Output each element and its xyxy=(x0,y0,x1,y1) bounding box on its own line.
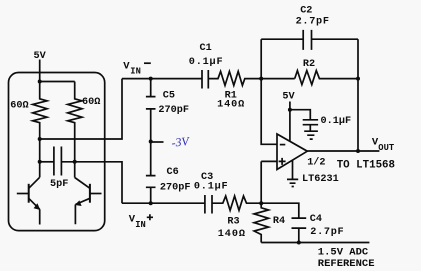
value 0.1uF C3 xyxy=(194,182,229,193)
svg-text:1/2: 1/2 xyxy=(307,156,325,168)
IC internal boundary box xyxy=(9,73,105,231)
designator C1 xyxy=(200,43,212,54)
node 5V left supply label xyxy=(34,51,47,62)
node junction left collector xyxy=(38,137,42,141)
op-amp U1 triangle xyxy=(277,134,307,170)
svg-text:270pF: 270pF xyxy=(160,183,191,194)
value 270pF C6 xyxy=(160,183,191,194)
wire opamp V- lead xyxy=(292,161,294,180)
svg-text:-3V: -3V xyxy=(171,134,191,150)
net label -3V annotation xyxy=(171,134,191,150)
designator R2 xyxy=(303,59,315,70)
wire VIN+ line xyxy=(122,202,205,204)
wire bypass branch xyxy=(290,110,310,120)
resistor 60ohm left xyxy=(33,82,47,178)
resistor R1 xyxy=(208,71,294,85)
svg-text:60Ω: 60Ω xyxy=(10,100,28,111)
value label 60ohm left xyxy=(10,100,28,111)
label 1.5V ADC xyxy=(318,246,369,258)
wire reference line xyxy=(261,242,369,244)
transistor Q1 collector xyxy=(29,177,40,188)
wire collector left to VIN- xyxy=(40,79,122,139)
designator C6 xyxy=(167,167,179,178)
svg-text:5V: 5V xyxy=(282,92,295,103)
svg-text:R3: R3 xyxy=(227,217,239,228)
node junction plus input xyxy=(259,201,263,205)
svg-text:C5: C5 xyxy=(163,90,175,101)
node junction 5V/rail xyxy=(38,80,42,84)
svg-text:0.1µF: 0.1µF xyxy=(194,182,229,193)
transistor Q2 emitter arrow xyxy=(75,200,82,206)
wire left collector to 5pF xyxy=(40,161,54,163)
transistor Q2 base lead xyxy=(90,193,102,195)
svg-text:V: V xyxy=(123,61,130,73)
value 0.1uF C1 xyxy=(189,57,224,68)
svg-text:IN: IN xyxy=(130,67,141,77)
value 140ohm R3 xyxy=(218,229,246,240)
svg-text:LT6231: LT6231 xyxy=(302,174,339,185)
transistor Q2 collector xyxy=(75,178,90,189)
wire plus input vertical xyxy=(261,161,277,203)
wire C4 branch xyxy=(261,203,299,218)
svg-text:1.5V ADC: 1.5V ADC xyxy=(318,246,369,258)
transistor Q2 emitter xyxy=(75,198,90,224)
value 140ohm R1 xyxy=(217,100,245,111)
node VOUT label xyxy=(372,136,395,152)
designator R3 xyxy=(227,217,239,228)
wire resistor top rail xyxy=(40,81,75,83)
value 2.7pF C4 xyxy=(310,227,344,238)
capacitor 5pF plates xyxy=(54,147,62,176)
svg-text:140Ω: 140Ω xyxy=(217,100,245,111)
capacitor C4 xyxy=(292,218,307,242)
svg-text:0.1µF: 0.1µF xyxy=(321,116,352,127)
node junction right collector xyxy=(73,160,77,164)
node junction feedback/output xyxy=(356,149,360,153)
resistor R2 xyxy=(295,71,358,85)
svg-text:2.7pF: 2.7pF xyxy=(296,17,330,28)
value label 5pF xyxy=(50,179,68,190)
wire feedback left vertical xyxy=(261,39,277,144)
svg-text:5pF: 5pF xyxy=(50,179,68,190)
value label 60ohm right xyxy=(82,97,100,108)
transistor Q2 base bar xyxy=(89,184,91,203)
wire 5V lead xyxy=(39,60,41,82)
svg-text:2.7pF: 2.7pF xyxy=(310,227,344,238)
svg-text:REFERENCE: REFERENCE xyxy=(318,258,375,270)
wire -3V stub xyxy=(151,141,164,143)
designator R4 xyxy=(273,216,285,227)
value 270pF C5 xyxy=(158,105,189,116)
wire feedback right vertical xyxy=(357,39,359,151)
capacitor C3 xyxy=(205,195,212,214)
capacitor 0.1uF bypass xyxy=(303,120,318,131)
node VIN+ label xyxy=(129,214,146,231)
op-amp minus symbol xyxy=(280,144,286,146)
svg-text:140Ω: 140Ω xyxy=(218,229,246,240)
svg-text:0.1µF: 0.1µF xyxy=(189,57,224,68)
svg-text:270pF: 270pF xyxy=(158,105,189,116)
designator C2 xyxy=(300,6,312,17)
node junction left collector low xyxy=(38,160,42,164)
designator C3 xyxy=(201,172,213,183)
designator C5 xyxy=(163,90,175,101)
resistor R3 xyxy=(212,196,261,210)
op-amp plus symbol xyxy=(279,158,286,165)
wire 5pF to right collector to VIN+ xyxy=(61,162,122,203)
label TO LT1568 xyxy=(337,160,395,172)
svg-text:IN: IN xyxy=(135,220,146,230)
node junction C6 bottom xyxy=(149,201,153,205)
ground opamp xyxy=(287,179,298,186)
svg-text:R2: R2 xyxy=(303,59,315,70)
transistor Q1 emitter arrow xyxy=(34,203,41,210)
capacitor C2 xyxy=(303,30,311,50)
value 0.1uF bypass xyxy=(321,116,352,127)
svg-text:C6: C6 xyxy=(167,167,179,178)
svg-text:OUT: OUT xyxy=(378,143,395,153)
svg-text:C1: C1 xyxy=(200,43,212,54)
wire output line xyxy=(307,150,379,152)
wire C2 branch xyxy=(261,38,358,40)
label REFERENCE xyxy=(318,258,375,270)
value 2.7pF C2 xyxy=(296,17,330,28)
capacitor C1 xyxy=(202,70,208,89)
node junction mid caps xyxy=(149,140,153,144)
node junction C4 bottom xyxy=(297,241,301,245)
designator R1 xyxy=(225,91,237,102)
node junction 5V branch xyxy=(288,108,292,112)
capacitor C6 xyxy=(146,142,156,204)
designator C4 xyxy=(310,214,322,225)
transistor Q1 base lead xyxy=(17,193,29,195)
label 1/2 xyxy=(307,156,325,168)
capacitor C5 xyxy=(146,79,156,142)
svg-text:C2: C2 xyxy=(300,6,312,17)
node VIN- label xyxy=(123,61,141,77)
resistor R4 xyxy=(254,203,268,242)
node junction summing minus xyxy=(259,77,263,81)
wire VIN- line xyxy=(122,78,202,80)
node 5V opamp supply label xyxy=(282,92,295,103)
transistor Q1 base bar xyxy=(28,184,30,203)
svg-text:R4: R4 xyxy=(273,216,285,227)
node junction C5 top xyxy=(149,77,153,81)
svg-text:C4: C4 xyxy=(310,214,322,225)
transistor Q1 emitter xyxy=(29,198,40,224)
ground bypass xyxy=(304,131,318,139)
node junction R2 right xyxy=(356,77,360,81)
svg-text:TO LT1568: TO LT1568 xyxy=(337,160,395,172)
resistor 60ohm right xyxy=(68,82,82,178)
svg-text:60Ω: 60Ω xyxy=(82,97,100,108)
designator LT6231 xyxy=(302,174,339,185)
wire opamp V+ lead xyxy=(289,102,291,142)
